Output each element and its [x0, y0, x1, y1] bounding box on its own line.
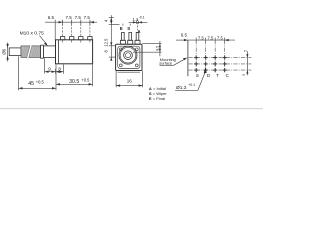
drilling plan: hole crosses	[194, 56, 227, 73]
svg-text:-0.1: -0.1	[139, 16, 145, 20]
legend A/S/E	[149, 86, 168, 101]
svg-text:7.5: 7.5	[208, 35, 214, 40]
svg-text:30.5: 30.5	[69, 79, 79, 85]
front view: inner plate	[118, 46, 140, 68]
front view: corner rivets	[119, 48, 122, 51]
front view: terminals E S A	[120, 19, 140, 44]
svg-text:Ø1.3: Ø1.3	[176, 85, 187, 91]
svg-text:M10 x 0.75: M10 x 0.75	[20, 31, 44, 37]
svg-text:45: 45	[28, 81, 34, 87]
svg-text:E = Final: E = Final	[149, 96, 165, 101]
svg-text:S: S	[196, 73, 199, 78]
svg-text:5: 5	[244, 50, 248, 52]
side view: shaft Ø6 dimension	[2, 43, 9, 62]
Mounting surface label with leader	[159, 57, 187, 66]
dimension 45 +0.5	[19, 56, 57, 90]
dimension 9 and 8 below bushing	[45, 58, 64, 73]
front view right dimension 8.5	[133, 41, 162, 56]
front view left dimension column 4 / 12.5 / 8	[103, 15, 119, 61]
side view: washer	[41, 45, 44, 58]
svg-text:8.5: 8.5	[155, 46, 159, 51]
body front plate line	[57, 40, 59, 64]
drilling plan: hole row centerlines	[188, 57, 251, 59]
svg-text:S: S	[127, 26, 130, 31]
svg-text:16: 16	[127, 79, 133, 84]
svg-text:5: 5	[242, 74, 246, 76]
svg-text:+0.5: +0.5	[81, 77, 90, 82]
svg-text:surface: surface	[159, 61, 172, 66]
M10 x 0.75 label with leader	[20, 31, 48, 46]
svg-text:E: E	[120, 26, 123, 31]
svg-text:7.5: 7.5	[198, 35, 204, 40]
side view: bushing plain section	[43, 46, 55, 58]
svg-text:Ø6: Ø6	[2, 48, 7, 54]
drilling plan: mounting surface line	[187, 40, 189, 76]
front view: boss and shaft circles	[119, 46, 137, 64]
break symbol in threads	[27, 45, 32, 58]
drilling plan: hole column centerlines	[195, 40, 197, 72]
svg-text:6.5: 6.5	[48, 15, 55, 20]
front view: body square	[116, 44, 142, 70]
svg-text:12.5: 12.5	[103, 38, 108, 47]
svg-text:7.5: 7.5	[84, 15, 91, 20]
drilling plan top dimension 6.5 / 7.5 7.5 7.5	[176, 32, 235, 42]
dimension 30.5 +0.5	[56, 64, 93, 86]
svg-text:+0.1: +0.1	[188, 83, 195, 87]
side view: plain shaft	[9, 48, 21, 56]
side view: terminal tabs on top	[60, 21, 92, 44]
dimension 16 (body width)	[116, 71, 143, 88]
svg-text:7.5: 7.5	[65, 15, 72, 20]
Ø1.3 +0.1 hole dimension with leader	[175, 67, 207, 91]
svg-text:6.5: 6.5	[181, 32, 188, 37]
drilling plan right dimension 5 / 5	[242, 50, 248, 76]
side view: body	[56, 40, 93, 64]
svg-text:7.5: 7.5	[217, 35, 223, 40]
front view bottom plate line	[118, 71, 141, 73]
dimension 1.1 -0.1 (terminal thickness)	[129, 16, 148, 24]
side view: threaded bushing M10 with hatch	[21, 45, 41, 58]
svg-text:T: T	[216, 73, 219, 78]
page separator line	[0, 108, 263, 110]
svg-text:7.5: 7.5	[75, 15, 82, 20]
svg-text:+0.5: +0.5	[36, 79, 45, 84]
side view top dimension chain 6.5 / 7.5 7.5 7.5	[45, 15, 97, 39]
